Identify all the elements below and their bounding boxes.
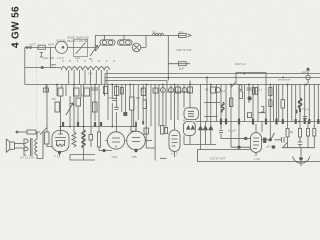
- svg-text:4 GW 56: 4 GW 56: [11, 6, 22, 48]
- wire v143: [142, 84, 144, 120]
- wire v244: [244, 84, 246, 122]
- svg-text:4047 µ2: 4047 µ2: [235, 62, 246, 66]
- wire v278: [278, 84, 280, 122]
- svg-text:R8: R8: [136, 96, 140, 100]
- svg-text:(T1/T) TWT: (T1/T) TWT: [210, 157, 226, 161]
- wire y138.5: [221, 139, 251, 148]
- resistor R16: [281, 100, 284, 108]
- blob B5: [296, 110, 298, 114]
- blob B3: [124, 112, 126, 116]
- wire v62: [61, 84, 63, 88]
- potentiometer arrow P2: [90, 46, 98, 57]
- wire tube U1 right lead: [68, 46, 96, 48]
- bottom section: [6, 125, 320, 166]
- arrow comp A5: [209, 126, 213, 130]
- wire v166: [165, 92, 167, 128]
- resistor R25: [286, 129, 289, 138]
- resistor R14a: [252, 88, 254, 95]
- resistor R11 coil: [221, 103, 224, 113]
- svg-text:0,1: 0,1: [179, 30, 184, 34]
- switch S4: [283, 143, 287, 148]
- wire v83: [83, 84, 85, 160]
- coil L8 choke dense: [82, 130, 85, 148]
- tube V3 triode: [127, 131, 146, 150]
- wire v226: [225, 84, 227, 122]
- resistor R27: [307, 129, 310, 137]
- wire speaker leads: [14, 144, 24, 149]
- lower bus blobs: [221, 119, 318, 125]
- svg-text:L 4 2: L 4 2: [171, 152, 178, 156]
- box B3 outline: [74, 39, 88, 56]
- junction dots: [56, 73, 307, 128]
- svg-text:L6: L6: [152, 29, 156, 33]
- capacitor C6: [103, 87, 107, 94]
- capacitor C14: [247, 113, 251, 118]
- box B1 outline: [236, 73, 266, 84]
- magic eye arc: [293, 157, 311, 164]
- bus y80.5 short: [105, 80, 167, 82]
- node dot N2: [103, 149, 105, 151]
- left column parts of V4: [161, 125, 164, 134]
- bracket comp U2: [261, 107, 264, 112]
- wire v70 pot: [69, 96, 71, 160]
- wire arrow end top line: [188, 34, 192, 37]
- wire v256: [255, 124, 257, 133]
- capacitor C17: [282, 137, 285, 143]
- antenna A1 symbol: [306, 75, 310, 79]
- wire: [266, 139, 270, 141]
- switch S2 blade: [40, 128, 47, 135]
- wire v184: [183, 84, 185, 145]
- wire tube leads: [105, 140, 127, 142]
- wire v91: [90, 84, 92, 147]
- wire v190: [189, 84, 191, 145]
- wire y112.7 stub: [258, 112, 265, 114]
- svg-text:5µF: 5µF: [179, 67, 184, 71]
- wire vertical x168.3: [167, 35, 169, 80]
- tube V2 triode: [107, 132, 124, 149]
- node dot N1: [248, 97, 251, 100]
- switch S1 diagonal in box: [76, 43, 86, 55]
- wire v159: [158, 84, 160, 127]
- wire y126.5 segment: [59, 126, 137, 128]
- wire y150.5: [99, 150, 112, 152]
- wire v314: [313, 84, 315, 148]
- tiny text labels: [20, 29, 309, 160]
- resistor R19: [89, 135, 93, 141]
- svg-text:UCH11: UCH11: [56, 39, 66, 43]
- wire vertical x24.8: [24, 47, 26, 84]
- IF can T4: [184, 122, 196, 136]
- right bottom rail: [282, 147, 315, 149]
- wire v291: [291, 84, 293, 122]
- svg-text:µmF: µmF: [301, 70, 307, 74]
- mid band verticals: [46, 77, 318, 161]
- wire v253: [252, 84, 254, 122]
- wire y144.5: [184, 144, 216, 146]
- wire v99: [98, 84, 100, 151]
- antenna coil bank: [25, 65, 110, 84]
- wire v112: [111, 84, 113, 127]
- wire y154.5: [70, 154, 95, 156]
- resistor R5: [84, 88, 90, 96]
- diode D2: [191, 126, 194, 129]
- wire v276: [276, 84, 278, 122]
- wire v309: [308, 84, 310, 122]
- top right small parts: [167, 68, 310, 92]
- wire v136: [135, 121, 137, 131]
- svg-text:2µF 450: 2µF 450: [43, 56, 54, 60]
- wire v46: [45, 84, 47, 92]
- wire V5 bottom: [255, 153, 257, 157]
- wire lamp feed: [141, 35, 146, 47]
- wire antenna line y47: [25, 46, 56, 48]
- wire v66: [65, 84, 67, 96]
- wire v116: [116, 84, 118, 132]
- blob B6: [136, 121, 143, 128]
- svg-text:R4: R4: [81, 94, 85, 98]
- wire v270: [269, 84, 271, 140]
- capacitor C16: [298, 142, 302, 145]
- capacitor C8: [153, 88, 158, 93]
- wire v95: [94, 84, 96, 121]
- wire v104: [104, 84, 106, 96]
- wire y102.5 stub: [204, 102, 220, 104]
- top section components: [25, 33, 191, 84]
- svg-text:0,1µF: 0,1µF: [228, 129, 236, 133]
- capacitor C5: [44, 88, 49, 92]
- wire v108: [107, 84, 109, 120]
- switch S3: [270, 133, 274, 141]
- capacitor C12c: [239, 85, 242, 90]
- wire y116.5 stub: [204, 116, 218, 118]
- capacitor C18: [303, 117, 307, 119]
- wire v74: [73, 84, 75, 132]
- wire v178: [177, 84, 179, 120]
- svg-text:0,1 µ: 0,1 µ: [302, 107, 309, 111]
- resistor R22: [176, 87, 181, 93]
- parts above V3: [131, 127, 136, 132]
- wire v78: [77, 106, 79, 127]
- wire top horizontal bus y35.4: [95, 34, 186, 36]
- svg-text:05: 05: [205, 88, 209, 92]
- capacitor C4 tick: [40, 53, 43, 58]
- wire corner x105: [104, 74, 106, 85]
- svg-text:25: 25: [140, 88, 144, 92]
- wire v249: [248, 84, 250, 103]
- resistor R26: [299, 129, 302, 138]
- tube V1 output: [52, 131, 69, 152]
- resistor R17: [45, 132, 50, 144]
- resistor R14b: [255, 88, 257, 95]
- wire v121: [121, 84, 123, 112]
- box around detector: [198, 150, 320, 162]
- resistor R8a: [120, 87, 123, 94]
- svg-text:25µ13 1,2W 5k: 25µ13 1,2W 5k: [67, 39, 88, 43]
- wire x43 riser: [42, 132, 44, 159]
- resistor R9: [141, 88, 145, 95]
- wire v151: [150, 84, 152, 127]
- switch S6 blade: [231, 83, 235, 88]
- svg-text:amansuh: amansuh: [278, 78, 291, 82]
- blob L7b: [299, 109, 301, 113]
- wire v60 grid: [60, 96, 62, 131]
- wire v262: [261, 122, 263, 133]
- wire v162: [162, 84, 164, 125]
- wire v171: [170, 84, 172, 120]
- wire v287: [287, 84, 289, 148]
- svg-text:C33: C33: [112, 155, 118, 159]
- bus y121.5 lower right: [195, 121, 320, 123]
- tube V4 pentode: [169, 130, 180, 152]
- wire y148 stub: [145, 141, 155, 149]
- wire v200: [200, 84, 202, 150]
- bus y77: [105, 77, 320, 79]
- wire right of V5: [262, 139, 264, 141]
- parts at 214-221: [211, 87, 216, 93]
- fuse F1: [27, 130, 36, 134]
- wire v282: [282, 84, 284, 122]
- resistor R14c: [269, 100, 272, 107]
- resistor R9b: [143, 100, 147, 109]
- wire v308: [307, 122, 309, 148]
- wire v130: [130, 84, 132, 127]
- wire v266: [265, 84, 267, 122]
- wire transformer leads: [24, 132, 43, 159]
- resistor R15: [98, 132, 101, 147]
- coil L1 row of loops: [61, 67, 110, 70]
- svg-text:HOT: HOT: [48, 43, 55, 47]
- svg-text:UY 11 170: UY 11 170: [20, 156, 34, 160]
- wire coil taps down to bus: [69, 70, 107, 84]
- terminal marks: [26, 46, 28, 48]
- svg-text:2 8 5 5 2 8 5 0: 2 8 5 5 2 8 5 0: [62, 59, 117, 63]
- svg-text:R3: R3: [52, 97, 56, 101]
- svg-text:C6: C6: [109, 96, 113, 100]
- wire osc feed y67.5: [25, 67, 61, 69]
- svg-text:T65: T65: [132, 155, 138, 159]
- wire v216: [216, 84, 218, 122]
- svg-text:0,1: 0,1: [258, 88, 263, 92]
- capacitor C15 solid: [264, 138, 267, 143]
- resistor R6: [55, 102, 60, 112]
- wire to cap: [274, 139, 281, 141]
- wire under V4: [160, 157, 167, 159]
- coil L6 on top line: [153, 33, 164, 35]
- capacitor C5b: [91, 88, 98, 90]
- resistor R12: [239, 91, 242, 98]
- svg-text:0,2: 0,2: [221, 89, 226, 93]
- resistor R3: [58, 88, 63, 96]
- wire vertical x50.4 osc: [49, 47, 51, 67]
- resistor R23: [182, 88, 187, 93]
- wire y160: [70, 159, 95, 161]
- wire v47: [47, 84, 52, 147]
- wire v81: [80, 84, 82, 98]
- capacitor C7: [114, 87, 118, 96]
- speaker SP1: [10, 142, 15, 149]
- capacitor C13b: [247, 88, 252, 90]
- wire v174 tube lead: [174, 84, 176, 157]
- part right of V3: [144, 128, 149, 134]
- wire v239: [238, 84, 240, 147]
- wire tube V1 bottom: [59, 152, 61, 157]
- wire v210: [210, 84, 212, 145]
- capacitor C7b: [112, 98, 119, 109]
- wire v231: [230, 84, 232, 147]
- arrow comp A3: [199, 126, 203, 130]
- svg-text:GW 75 S.B.: GW 75 S.B.: [176, 48, 192, 52]
- wire v146: [145, 84, 147, 148]
- resistor R28: [313, 129, 316, 137]
- bus y73.5: [105, 73, 320, 75]
- resistor R13: [230, 98, 233, 107]
- wire v304: [304, 84, 306, 122]
- IF transformer T2 can: [118, 40, 133, 45]
- wire can risers: [105, 35, 125, 39]
- resistor R8: [130, 97, 135, 110]
- IF can T3: [184, 108, 198, 120]
- resistor R4: [74, 88, 80, 96]
- resistor R20: [160, 88, 165, 93]
- capacitor C2 bars: [51, 65, 55, 68]
- tube U1 mixer circle: [56, 41, 68, 53]
- wire stub y63.7: [168, 63, 190, 65]
- arrow comp A4: [203, 126, 207, 130]
- wire v273: [273, 84, 275, 122]
- svg-text:5k: 5k: [290, 130, 294, 134]
- capacitor C1 on y63.7 stub: [178, 62, 186, 66]
- coil L7 dense: [299, 98, 302, 108]
- resistor R7b: [93, 102, 98, 112]
- resistor R2 on y47 line: [38, 45, 45, 49]
- blobs left lower: [63, 122, 101, 127]
- svg-text:L 43: L 43: [254, 157, 260, 161]
- svg-text:HOT: HOT: [30, 43, 37, 47]
- diode D1: [187, 126, 190, 129]
- wire v155: [154, 84, 156, 161]
- wire v125: [124, 84, 126, 116]
- resistor R18 zigzag: [72, 132, 76, 147]
- wire v138: [137, 84, 139, 120]
- svg-text:µF 2: µF 2: [266, 145, 272, 149]
- paper background: [0, 0, 320, 168]
- wire v318: [317, 84, 319, 122]
- resistor R21: [169, 88, 174, 93]
- wire v300: [299, 84, 301, 148]
- svg-text:Y 11: Y 11: [54, 155, 60, 159]
- wire v205: [204, 122, 206, 145]
- tube V5 pentode: [251, 133, 262, 153]
- output transformer TR1: [24, 139, 29, 151]
- IF transformer T1 can: [100, 40, 115, 45]
- wire v295: [295, 84, 297, 122]
- paper fold edge: [36, 46, 38, 128]
- wire v57: [56, 84, 58, 96]
- resistor R1 on top line: [178, 34, 186, 38]
- wire v258: [257, 84, 259, 122]
- box B2 outline: [167, 81, 190, 93]
- wire v221: [220, 84, 222, 139]
- indicator lamp E1: [132, 43, 141, 52]
- switch S5 blade: [96, 45, 101, 52]
- wire v207: [206, 77, 208, 122]
- mid band components: [44, 83, 319, 145]
- resistor R7: [76, 98, 81, 106]
- wire v133: [133, 84, 135, 127]
- resistor R14: [269, 88, 272, 96]
- potentiometer P1: [66, 103, 73, 115]
- wire vertical x95.3 drop: [94, 35, 96, 51]
- bus y84 main: [25, 84, 320, 86]
- capacitor C9: [188, 87, 193, 93]
